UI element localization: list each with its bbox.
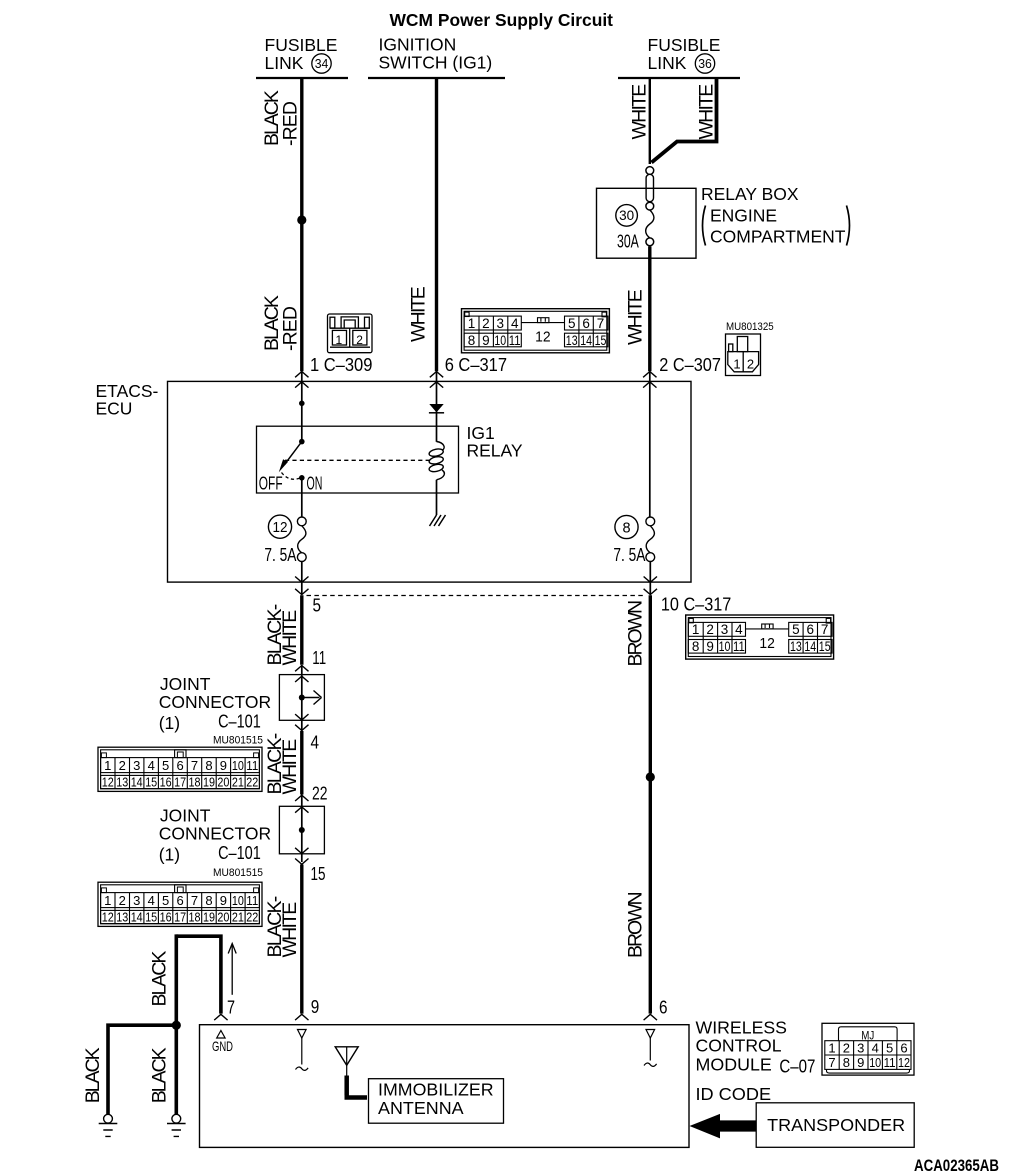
svg-text:GND: GND: [212, 1038, 233, 1054]
svg-text:36: 36: [698, 57, 712, 71]
svg-text:1: 1: [468, 316, 476, 331]
svg-text:RELAY BOX: RELAY BOX: [701, 184, 799, 204]
svg-text:ENGINE: ENGINE: [710, 206, 777, 226]
svg-text:BLACK: BLACK: [149, 951, 171, 1007]
svg-text:2: 2: [843, 1040, 850, 1055]
svg-text:WIRELESS: WIRELESS: [696, 1018, 788, 1038]
svg-text:C–07: C–07: [779, 1057, 815, 1077]
svg-text:19: 19: [203, 774, 215, 789]
svg-text:MU801325: MU801325: [726, 321, 774, 333]
svg-text:TRANSPONDER: TRANSPONDER: [767, 1115, 905, 1135]
svg-text:FUSIBLE: FUSIBLE: [265, 35, 338, 55]
svg-text:1 C–309: 1 C–309: [310, 355, 372, 375]
svg-text:OFF: OFF: [259, 474, 283, 494]
svg-text:CONTROL: CONTROL: [696, 1036, 782, 1056]
svg-text:-RED: -RED: [279, 101, 301, 146]
svg-text:8: 8: [843, 1055, 850, 1070]
svg-text:RELAY: RELAY: [467, 441, 523, 461]
svg-text:LINK: LINK: [648, 53, 687, 73]
svg-text:34: 34: [315, 57, 329, 71]
svg-text:10: 10: [232, 758, 244, 773]
svg-text:-RED: -RED: [279, 306, 301, 351]
svg-text:MU801515: MU801515: [213, 867, 263, 879]
svg-text:ANTENNA: ANTENNA: [378, 1098, 464, 1118]
svg-text:20: 20: [217, 774, 229, 789]
svg-text:COMPARTMENT: COMPARTMENT: [710, 227, 846, 247]
svg-text:WHITE: WHITE: [279, 739, 301, 795]
svg-text:11: 11: [509, 333, 521, 348]
svg-text:1: 1: [104, 758, 111, 773]
svg-text:9: 9: [220, 758, 227, 773]
svg-text:BLACK: BLACK: [82, 1047, 104, 1103]
svg-text:ID CODE: ID CODE: [696, 1084, 772, 1104]
svg-text:12: 12: [273, 520, 288, 536]
svg-text:10 C–317: 10 C–317: [661, 595, 731, 615]
svg-text:JOINT: JOINT: [160, 674, 211, 694]
svg-text:7. 5A: 7. 5A: [613, 545, 645, 565]
svg-text:6: 6: [659, 998, 668, 1018]
svg-text:15: 15: [145, 774, 157, 789]
svg-text:11: 11: [246, 758, 258, 773]
svg-text:7. 5A: 7. 5A: [264, 545, 296, 565]
svg-text:22: 22: [312, 784, 328, 804]
svg-text:MU801515: MU801515: [213, 734, 263, 746]
svg-text:(1): (1): [159, 845, 180, 865]
svg-text:WHITE: WHITE: [625, 289, 647, 345]
svg-text:6: 6: [176, 758, 183, 773]
svg-text:2: 2: [482, 316, 490, 331]
svg-text:2 C–307: 2 C–307: [659, 355, 721, 375]
svg-text:7: 7: [597, 316, 605, 331]
svg-text:16: 16: [160, 774, 172, 789]
svg-text:WHITE: WHITE: [279, 610, 301, 666]
svg-text:6: 6: [582, 316, 590, 331]
svg-text:14: 14: [580, 333, 592, 348]
svg-text:10: 10: [494, 333, 506, 348]
svg-text:1: 1: [335, 333, 342, 347]
svg-text:IMMOBILIZER: IMMOBILIZER: [378, 1080, 494, 1100]
svg-text:WHITE: WHITE: [279, 902, 301, 958]
svg-text:8: 8: [468, 333, 476, 348]
svg-text:WHITE: WHITE: [696, 84, 718, 140]
svg-text:FUSIBLE: FUSIBLE: [648, 35, 721, 55]
svg-text:3: 3: [133, 758, 140, 773]
svg-text:1: 1: [733, 357, 740, 372]
svg-text:CONNECTOR: CONNECTOR: [159, 824, 271, 844]
svg-text:5: 5: [313, 596, 322, 616]
svg-text:18: 18: [189, 774, 201, 789]
svg-text:C–101: C–101: [218, 843, 261, 863]
svg-text:ON: ON: [307, 474, 323, 494]
svg-text:3: 3: [497, 316, 505, 331]
svg-text:22: 22: [246, 774, 258, 789]
svg-text:5: 5: [568, 316, 576, 331]
svg-text:5: 5: [162, 758, 169, 773]
svg-text:5: 5: [886, 1040, 893, 1055]
svg-text:4: 4: [311, 733, 320, 753]
svg-text:7: 7: [828, 1055, 835, 1070]
svg-text:(1): (1): [159, 713, 180, 733]
svg-text:1: 1: [828, 1040, 835, 1055]
svg-text:3: 3: [857, 1040, 864, 1055]
svg-text:ACA02365AB: ACA02365AB: [914, 1157, 999, 1175]
svg-text:8: 8: [205, 758, 212, 773]
svg-text:4: 4: [511, 316, 519, 331]
svg-text:9: 9: [482, 333, 490, 348]
svg-text:21: 21: [232, 774, 244, 789]
svg-text:10: 10: [869, 1055, 881, 1070]
svg-text:15: 15: [595, 333, 607, 348]
svg-text:12: 12: [102, 774, 114, 789]
svg-text:12: 12: [898, 1055, 910, 1070]
svg-text:17: 17: [174, 774, 186, 789]
svg-text:6: 6: [900, 1040, 907, 1055]
svg-text:13: 13: [116, 774, 128, 789]
svg-text:7: 7: [227, 998, 235, 1018]
svg-text:WHITE: WHITE: [407, 286, 429, 342]
svg-text:BLACK: BLACK: [149, 1047, 171, 1103]
svg-text:4: 4: [148, 758, 155, 773]
svg-text:14: 14: [131, 774, 143, 789]
svg-text:BROWN: BROWN: [625, 600, 647, 667]
svg-text:13: 13: [566, 333, 578, 348]
svg-text:12: 12: [535, 330, 551, 346]
svg-text:IGNITION: IGNITION: [379, 35, 457, 55]
svg-text:ECU: ECU: [96, 398, 133, 418]
svg-text:4: 4: [872, 1040, 879, 1055]
svg-text:30A: 30A: [617, 232, 639, 252]
svg-text:6 C–317: 6 C–317: [445, 355, 507, 375]
svg-text:7: 7: [191, 758, 198, 773]
svg-text:30: 30: [619, 208, 634, 223]
svg-text:9: 9: [857, 1055, 864, 1070]
svg-text:CONNECTOR: CONNECTOR: [159, 692, 271, 712]
svg-text:WCM Power Supply Circuit: WCM Power Supply Circuit: [390, 10, 614, 30]
svg-text:C–101: C–101: [218, 712, 261, 732]
svg-text:SWITCH (IG1): SWITCH (IG1): [379, 53, 493, 73]
svg-text:JOINT: JOINT: [160, 806, 211, 826]
svg-text:2: 2: [119, 758, 126, 773]
svg-text:2: 2: [747, 357, 754, 372]
svg-text:15: 15: [311, 864, 326, 884]
svg-text:9: 9: [311, 997, 320, 1017]
svg-text:11: 11: [884, 1055, 896, 1070]
svg-text:WHITE: WHITE: [629, 84, 651, 140]
svg-text:MODULE: MODULE: [696, 1054, 772, 1074]
svg-text:2: 2: [356, 333, 363, 347]
svg-text:8: 8: [622, 521, 630, 537]
svg-text:BROWN: BROWN: [625, 891, 647, 958]
svg-text:11: 11: [312, 648, 326, 668]
svg-text:LINK: LINK: [265, 53, 304, 73]
